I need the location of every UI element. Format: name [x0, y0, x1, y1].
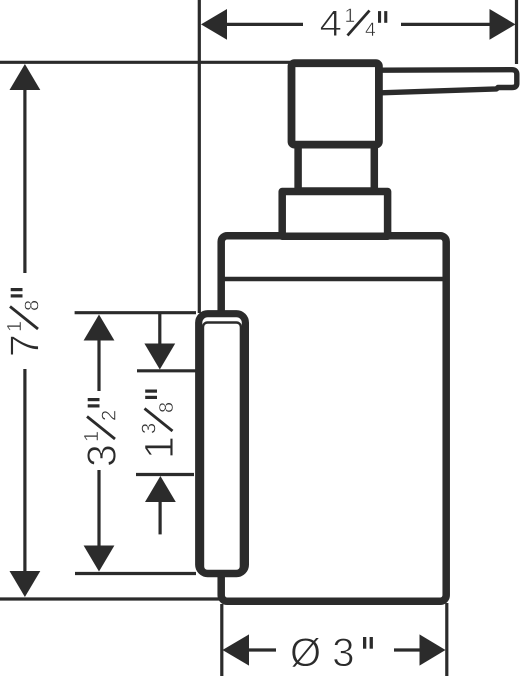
svg-text:1: 1 [345, 5, 356, 27]
svg-text:2: 2 [99, 410, 121, 421]
svg-text:3: 3 [139, 423, 161, 434]
svg-text:4: 4 [320, 3, 343, 44]
svg-text:Ø 3: Ø 3 [290, 631, 354, 675]
svg-text:1: 1 [81, 431, 103, 442]
svg-text:8: 8 [22, 300, 44, 311]
svg-text:7: 7 [2, 334, 48, 357]
svg-text:4: 4 [365, 19, 376, 41]
svg-text:1: 1 [136, 436, 182, 459]
svg-text:8: 8 [156, 402, 178, 413]
svg-text:1: 1 [4, 321, 26, 332]
svg-text:3: 3 [79, 444, 125, 467]
